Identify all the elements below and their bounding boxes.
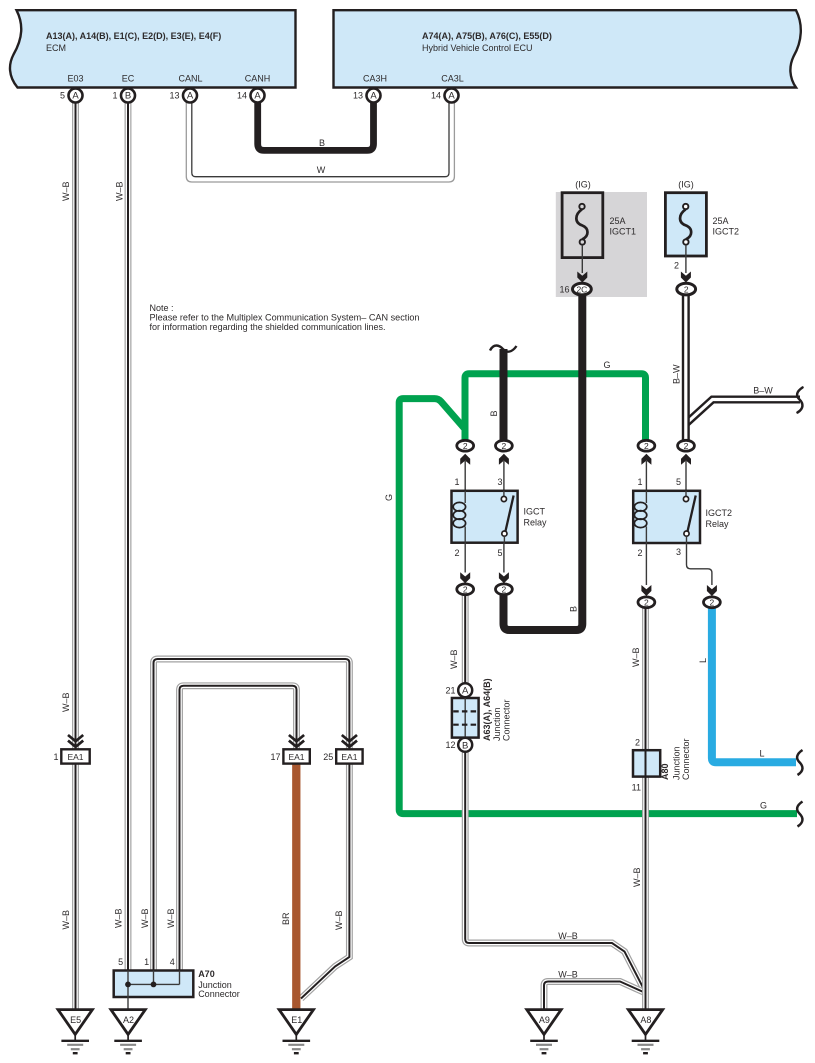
IGCT2 relay coil [645, 491, 647, 503]
ground E1 [279, 1010, 313, 1054]
wire W-B: IGCT2 relay pin2 oval down to A80 junction [642, 605, 649, 752]
cut symbol (wavy break) at top of B wire [490, 346, 517, 352]
arrow into fuse IGCT2 output oval [681, 272, 691, 283]
svg-text:EA1: EA1 [341, 752, 357, 762]
ECM box [10, 10, 296, 87]
svg-text:L: L [698, 658, 708, 663]
svg-text:1: 1 [637, 477, 642, 487]
svg-text:Junction: Junction [672, 746, 682, 780]
svg-text:IGCT1: IGCT1 [610, 227, 637, 237]
arrow up into IGCT relay pin1 oval [460, 454, 470, 465]
svg-text:A: A [72, 91, 79, 102]
svg-text:5: 5 [497, 548, 502, 558]
svg-text:A13(A), A14(B), E1(C), E2(D),: A13(A), A14(B), E1(C), E2(D), E3(E), E4(… [46, 31, 221, 41]
junction connector A70 box [114, 971, 194, 998]
svg-text:W–B: W–B [334, 910, 344, 930]
svg-text:B–W: B–W [672, 364, 682, 384]
wire W-B: A80 junction down to ground A8 [642, 776, 649, 1012]
junction connector A63(A),A64(B) circle A pin 21 [458, 683, 472, 697]
svg-text:A: A [448, 91, 455, 102]
off-page squiggle for L wire [797, 750, 802, 775]
svg-text:11: 11 [632, 783, 641, 793]
svg-text:A8: A8 [640, 1015, 651, 1025]
ECU pin 13 CA3H connector circle A [367, 89, 381, 103]
junction connector A63(A),A64(B) box [452, 698, 479, 738]
svg-text:5: 5 [60, 91, 65, 101]
Hybrid Vehicle Control ECU box [334, 10, 801, 87]
svg-text:(IG): (IG) [678, 180, 694, 190]
relay IGCT box [452, 491, 518, 543]
wire W-B: ECM EC down to A70 pin5 [125, 103, 132, 973]
svg-text:(IG): (IG) [575, 180, 591, 190]
svg-text:W–B: W–B [140, 908, 150, 928]
ground A8 [628, 1010, 662, 1054]
svg-text:E1: E1 [291, 1015, 302, 1025]
svg-text:CANH: CANH [245, 74, 271, 84]
wire W-B: ECM E03 down to EA1(1) [72, 103, 79, 751]
svg-text:Connector: Connector [502, 699, 512, 741]
svg-text:IGCT2: IGCT2 [713, 227, 740, 237]
svg-text:3: 3 [497, 477, 502, 487]
wire W-B: A70 pin1 loop up and over to EA1(25) [154, 659, 350, 972]
svg-text:for information regarding the: for information regarding the shielded c… [150, 322, 386, 332]
IGCT relay switch [503, 491, 505, 497]
arrow down into IGCT relay pin5 oval [499, 572, 509, 583]
svg-text:W: W [317, 165, 326, 175]
ECM pin 13 CANL connector circle A [183, 89, 197, 103]
svg-text:W–B: W–B [61, 692, 71, 712]
svg-text:B: B [569, 606, 579, 612]
ECM pin 5 E03 connector circle A [69, 89, 83, 103]
svg-text:W–B: W–B [558, 970, 578, 980]
wire B thick: fuse IGCT1 2C oval down, left, up to IGCT relay pin5 oval [504, 294, 583, 630]
wire BR: EA1(17) down to ground E1 [292, 763, 300, 1012]
svg-text:A: A [370, 91, 377, 102]
wire W-B: A70 pin4 loop up and over to EA1(17) [180, 686, 297, 972]
wire B thick: CANH to CA3H shield link [258, 103, 374, 151]
wire W-B: EA1(25) down then diagonal to E1 ground wire [301, 763, 349, 999]
ground A9 [527, 1010, 561, 1054]
fuse IGCT1 lead to 2C [581, 245, 583, 273]
svg-text:CA3H: CA3H [363, 74, 387, 84]
svg-text:Note :: Note : [150, 303, 174, 313]
ground E5 [58, 1010, 92, 1054]
arrow up into IGCT relay pin3 oval [499, 454, 509, 465]
svg-text:16: 16 [559, 284, 569, 294]
svg-text:Hybrid Vehicle Control ECU: Hybrid Vehicle Control ECU [422, 43, 533, 53]
node 2C oval (pin 16) [573, 283, 592, 295]
connector EA1 pin 25 (double chevron + box) [342, 735, 357, 741]
svg-text:B: B [319, 138, 325, 148]
svg-text:W–B: W–B [558, 931, 578, 941]
svg-text:5: 5 [676, 477, 681, 487]
svg-text:4: 4 [170, 957, 175, 967]
arrow down into IGCT relay pin2 oval [460, 572, 470, 583]
node oval 2 above IGCT relay pin3 [496, 440, 513, 451]
svg-text:EA1: EA1 [288, 752, 304, 762]
IGCT2 relay lead pin2 to bottom oval [645, 543, 647, 585]
svg-text:2C: 2C [576, 284, 587, 294]
svg-text:2: 2 [644, 598, 649, 608]
svg-text:W–B: W–B [61, 181, 71, 201]
junction connector A63(A),A64(B) circle B pin 12 [458, 738, 472, 752]
svg-text:25: 25 [323, 752, 333, 762]
wire B-W branch to off-page right [685, 400, 800, 425]
svg-text:BR: BR [281, 912, 291, 925]
svg-text:Relay: Relay [706, 519, 730, 529]
svg-text:IGCT2: IGCT2 [706, 508, 733, 518]
svg-text:B: B [125, 91, 131, 102]
IGCT relay coil [464, 491, 466, 503]
node oval 2 below IGCT2 relay pin2 [638, 597, 655, 608]
svg-text:EC: EC [122, 74, 135, 84]
wire W: CANL to CA3L link (double line) [186, 103, 454, 183]
connector EA1 pin 1 (double chevron + box) [68, 735, 83, 741]
svg-text:A70: A70 [198, 969, 215, 979]
svg-text:2: 2 [502, 441, 507, 451]
wire L blue: IGCT2 relay pin3 to off-page right [712, 604, 796, 762]
svg-text:2: 2 [684, 284, 689, 294]
svg-text:CA3L: CA3L [441, 74, 464, 84]
svg-text:A80: A80 [660, 763, 670, 780]
svg-text:Junction: Junction [492, 707, 502, 741]
wire W-B: junction A63 circle B down, right, diagonal to A8 ground wire [465, 751, 644, 990]
svg-text:B: B [462, 740, 468, 751]
wire W-B: EA1(1) down to ground E5 [72, 763, 79, 1012]
svg-text:1: 1 [454, 477, 459, 487]
svg-text:12: 12 [445, 740, 455, 750]
junction dot A70 pin1 bus [151, 982, 157, 988]
IGCT2 relay leads to top ovals [645, 461, 647, 491]
fuse IGCT1 gray background panel [556, 192, 647, 297]
svg-text:A63(A), A64(B): A63(A), A64(B) [482, 678, 492, 741]
svg-text:A: A [462, 686, 469, 697]
wire W-B: ground A9 up, right, diagonal to A8 ground wire [544, 982, 645, 1012]
svg-text:CANL: CANL [178, 74, 202, 84]
svg-text:IGCT: IGCT [524, 507, 546, 517]
svg-text:3: 3 [676, 547, 681, 557]
svg-text:14: 14 [237, 91, 247, 101]
svg-text:13: 13 [169, 91, 179, 101]
arrow up into IGCT2 relay pin5 oval [681, 454, 691, 465]
IGCT relay leads to top ovals [464, 461, 466, 491]
ECM pin 1 EC connector circle B [121, 89, 135, 103]
svg-text:2: 2 [710, 598, 715, 608]
svg-text:5: 5 [118, 957, 123, 967]
svg-text:W–B: W–B [115, 181, 125, 201]
wire G green branch: down left side and along bottom to off-page right [399, 399, 797, 814]
wire W-B: IGCT relay pin2 oval down to junction A63 circle A [462, 592, 469, 684]
IGCT2 relay lead pin3 stepped to bottom oval [687, 543, 712, 585]
svg-text:A74(A), A75(B), A76(C), E55(D): A74(A), A75(B), A76(C), E55(D) [422, 31, 552, 41]
ground A2 [111, 1010, 145, 1054]
arrow up into IGCT2 relay pin1 oval [641, 454, 651, 465]
ECM pin 14 CANH connector circle A [251, 89, 265, 103]
svg-text:1: 1 [112, 91, 117, 101]
svg-text:17: 17 [270, 752, 280, 762]
svg-text:2: 2 [463, 585, 468, 595]
svg-text:W–B: W–B [631, 647, 641, 667]
arrow down into IGCT2 relay pin2 oval [641, 585, 651, 596]
svg-text:W–B: W–B [114, 908, 124, 928]
svg-text:1: 1 [144, 957, 149, 967]
junction dot A70 pin5 bus [125, 982, 131, 988]
off-page squiggle for G wire [797, 802, 802, 827]
node oval 2 above IGCT relay pin1 [457, 440, 474, 451]
svg-text:W–B: W–B [61, 910, 71, 930]
node oval 2 below IGCT2 relay pin3 [704, 597, 721, 608]
arrow down into IGCT2 relay pin3 oval [707, 585, 717, 596]
fuse IGCT2 25A [665, 193, 706, 256]
node oval 2 above IGCT2 relay pin5 [678, 440, 695, 451]
svg-text:ECM: ECM [46, 43, 66, 53]
svg-text:W–B: W–B [449, 649, 459, 669]
svg-text:13: 13 [353, 91, 363, 101]
fuse IGCT2 lead [685, 245, 687, 273]
relay IGCT2 box [633, 491, 700, 543]
svg-text:A: A [254, 91, 261, 102]
node oval 2 below fuse IGCT2 [677, 283, 696, 295]
svg-text:21: 21 [445, 685, 455, 695]
svg-text:1: 1 [53, 752, 58, 762]
svg-text:25A: 25A [610, 216, 626, 226]
svg-text:14: 14 [431, 91, 441, 101]
node oval 2 below IGCT relay pin5 [496, 584, 513, 595]
svg-text:A2: A2 [123, 1015, 134, 1025]
svg-text:2: 2 [674, 261, 679, 271]
ECU pin 14 CA3L connector circle A [445, 89, 459, 103]
svg-text:Relay: Relay [524, 518, 548, 528]
svg-text:25A: 25A [713, 216, 729, 226]
svg-text:EA1: EA1 [67, 752, 83, 762]
fuse IGCT1 25A [562, 193, 603, 258]
svg-text:E5: E5 [70, 1015, 81, 1025]
svg-text:2: 2 [463, 441, 468, 451]
wire G green: IGCT relay pin1 to IGCT2 relay pin1 top link [465, 374, 646, 444]
svg-text:Connector: Connector [198, 989, 240, 999]
svg-text:W–B: W–B [166, 908, 176, 928]
node oval 2 below IGCT relay pin2 [457, 584, 474, 595]
node oval 2 above IGCT2 relay pin1 [638, 440, 655, 451]
svg-text:A9: A9 [539, 1015, 550, 1025]
svg-text:2: 2 [454, 548, 459, 558]
A70 lead down to ground A2 [127, 997, 129, 1011]
svg-text:W–B: W–B [632, 867, 642, 887]
svg-text:2: 2 [644, 441, 649, 451]
svg-text:B–W: B–W [753, 386, 773, 396]
svg-text:Please refer to the Multiplex: Please refer to the Multiplex Communicat… [150, 313, 420, 323]
svg-text:2: 2 [684, 441, 689, 451]
svg-text:A: A [187, 91, 194, 102]
wire B-W: fuse IGCT2 oval down to IGCT2 relay pin5 oval [682, 294, 690, 442]
junction connector A80 box (pin 2 top, 11 bottom) [633, 750, 660, 776]
svg-text:G: G [384, 494, 394, 501]
svg-text:2: 2 [502, 585, 507, 595]
off-page squiggle for B-W wire [797, 388, 802, 413]
svg-text:B: B [489, 410, 499, 416]
svg-text:G: G [760, 801, 767, 811]
svg-text:2: 2 [637, 548, 642, 558]
svg-text:2: 2 [635, 738, 640, 748]
svg-text:L: L [759, 749, 764, 759]
svg-text:G: G [603, 360, 610, 370]
arrow into 2C oval [577, 272, 587, 283]
wire B thick: from cut symbol down to IGCT relay pin3 oval [500, 349, 508, 442]
IGCT2 relay switch [685, 491, 687, 497]
IGCT relay leads to bottom ovals [464, 543, 466, 573]
svg-text:Connector: Connector [681, 738, 691, 780]
connector EA1 pin 17 (double chevron + box) [289, 735, 304, 741]
svg-text:E03: E03 [67, 74, 83, 84]
